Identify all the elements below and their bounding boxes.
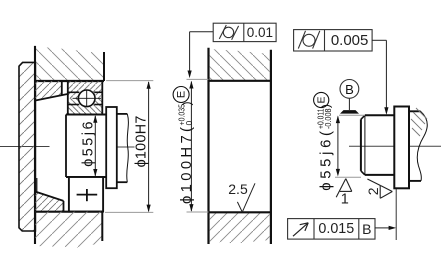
svg-text:B: B [362,221,371,237]
svg-text:0.01: 0.01 [247,25,273,40]
svg-text:2.5: 2.5 [228,181,248,197]
svg-text:E: E [316,96,328,103]
svg-text:ϕ100H7(: ϕ100H7( [179,127,195,204]
svg-text:2: 2 [365,187,381,195]
svg-text:ϕ100H7: ϕ100H7 [134,116,150,168]
svg-text:E: E [176,91,188,98]
svg-text:1: 1 [341,192,349,208]
svg-text:-0.008: -0.008 [324,108,333,129]
svg-text:ϕ55j6: ϕ55j6 [81,122,97,167]
svg-text:0.005: 0.005 [331,32,369,49]
svg-text:0.015: 0.015 [318,221,354,237]
svg-text:0: 0 [184,121,194,126]
svg-text:B: B [345,82,354,97]
